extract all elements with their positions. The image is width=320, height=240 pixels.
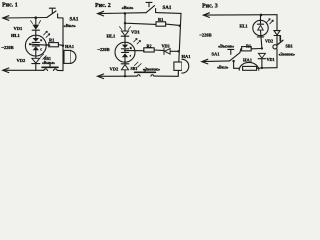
node VD3 rail junction circuit2 bbox=[177, 50, 179, 52]
cathode bar below HL1 circuit3 bbox=[257, 36, 263, 38]
pushbutton SB1 contact circuit3 bbox=[273, 45, 277, 49]
svg-text:HL1: HL1 bbox=[107, 34, 117, 39]
switch SA1 actuator bbox=[49, 8, 55, 12]
node junction top circuit1 bbox=[35, 16, 38, 19]
node junction top circuit2 bbox=[124, 12, 127, 15]
svg-text:НА1: НА1 bbox=[182, 54, 192, 59]
svg-text:HL1: HL1 bbox=[240, 23, 248, 28]
wire HL1 tap to R2 circuit2 bbox=[125, 50, 144, 52]
svg-text:HL1: HL1 bbox=[11, 33, 21, 38]
svg-text:R2: R2 bbox=[147, 43, 152, 48]
arrowhead mains row1 circuit3 bbox=[202, 59, 208, 64]
wire bottom rail right circuit2 bbox=[154, 73, 178, 76]
node bell VD1 junction circuit3 bbox=[261, 67, 263, 69]
pushbutton SB1 stem bbox=[49, 64, 51, 67]
arrowhead mains bottom circuit2 bbox=[98, 74, 104, 79]
lamp HL1 mid node circuit2 bbox=[124, 50, 126, 52]
diode VD2 circuit2 bbox=[121, 63, 129, 65]
pushbutton SB1 lever circuit3 bbox=[277, 40, 283, 45]
wire branch to R1 circuit2 bbox=[125, 23, 156, 24]
svg-text:VD2: VD2 bbox=[265, 39, 273, 44]
svg-text:VD1: VD1 bbox=[267, 57, 275, 62]
switch SA1 right contact bbox=[57, 14, 59, 17]
lamp HL1 circle bbox=[25, 35, 46, 56]
arrowhead mains top circuit1 bbox=[3, 16, 9, 21]
lamp HL1 light arrows circuit3 bbox=[267, 19, 270, 23]
lamp HL1 mid tap node bbox=[29, 43, 31, 45]
wire right rail middle circuit3 bbox=[276, 36, 278, 45]
wire HL1 tap to R1 bbox=[30, 44, 50, 45]
bell HA1 dome circuit3 bbox=[239, 62, 259, 70]
wire top rail circuit3 bbox=[204, 14, 277, 16]
svg-text:~220В: ~220В bbox=[2, 45, 14, 50]
resistor R2 circuit2 bbox=[144, 48, 154, 52]
wire bottom rail circuit1 bbox=[3, 69, 44, 71]
svg-text:«Вызов»: «Вызов» bbox=[218, 43, 234, 48]
lamp HL1 inner diode circuit3 bbox=[257, 15, 263, 24]
wire R1 to mid junction circuit3 bbox=[251, 48, 262, 50]
svg-text:«Выкл»: «Выкл» bbox=[42, 61, 55, 65]
svg-text:~220В: ~220В bbox=[200, 33, 212, 38]
lamp HL1 inner diode lower circuit2 bbox=[121, 51, 128, 53]
svg-text:к: к bbox=[40, 38, 42, 42]
arrowhead mains bottom circuit1 bbox=[3, 68, 9, 73]
svg-text:VD2: VD2 bbox=[110, 67, 119, 72]
wire top rail circuit2 bbox=[98, 12, 146, 15]
svg-text:«Вкл»: «Вкл» bbox=[217, 64, 228, 69]
svg-text:R1: R1 bbox=[246, 43, 251, 48]
lamp HL1 circle circuit2 bbox=[115, 42, 135, 62]
wire HL1 bottom stub circuit2 bbox=[124, 57, 126, 63]
arrowhead mains top circuit3 bbox=[203, 13, 209, 18]
wire VD1 branch circuit2 bbox=[124, 13, 126, 30]
node R1 to rail junction bbox=[62, 45, 64, 47]
svg-text:«Вкл»: «Вкл» bbox=[64, 23, 76, 28]
svg-text:«Вкл»: «Вкл» bbox=[122, 5, 134, 10]
switch SA1 actuator circuit2 bbox=[146, 2, 152, 6]
bell HA1 base circuit3 bbox=[243, 66, 257, 70]
wire blade to R1 circuit3 bbox=[240, 49, 242, 53]
wire row1 from mains circuit3 bbox=[202, 60, 229, 63]
pushbutton SB1 contact bumps bbox=[44, 69, 58, 71]
diode VD1 marks bbox=[31, 20, 41, 23]
svg-text:SB1: SB1 bbox=[131, 66, 138, 71]
switch SA1 actuator circuit3 bbox=[228, 49, 234, 54]
svg-text:SA1: SA1 bbox=[70, 18, 79, 23]
diode VD2 marks circuit2 bbox=[134, 62, 141, 67]
wire from SA1 down right side circuit1 bbox=[58, 18, 63, 71]
svg-text:VD2: VD2 bbox=[17, 58, 26, 63]
node junction top circuit3 bbox=[260, 14, 263, 17]
wire top rail circuit1 bbox=[3, 17, 46, 20]
svg-text:«Звонок»: «Звонок» bbox=[143, 67, 160, 72]
diode VD1 circuit3 bbox=[258, 53, 265, 58]
wire to R1 bbox=[46, 44, 49, 46]
node VD2 rail junction circuit2 bbox=[124, 75, 126, 77]
wire R2 to VD3 circuit2 bbox=[154, 49, 164, 52]
svg-text:SA1: SA1 bbox=[212, 51, 221, 56]
svg-text:SA1: SA1 bbox=[163, 6, 172, 11]
pushbutton SB1 bar circuit2 bbox=[135, 71, 156, 73]
diode VD1 circuit2 bbox=[121, 31, 128, 36]
wire bottom rail circuit2 bbox=[98, 75, 137, 77]
node bell row junction circuit3 bbox=[232, 60, 234, 62]
pushbutton SB1 contact bumps circuit2 bbox=[137, 75, 154, 76]
wire R1 to rail circuit2 bbox=[166, 24, 180, 25]
resistor R1 circuit2 bbox=[156, 22, 166, 26]
lamp HL1 inner diode upper bbox=[33, 38, 39, 42]
wire R1 to rail circuit1 bbox=[58, 44, 63, 47]
lamp HL1 inner diode lower bbox=[32, 45, 39, 47]
node branch junction circuit2 bbox=[124, 22, 126, 24]
svg-text:Рис. 2: Рис. 2 bbox=[95, 3, 111, 9]
switch SA1 blade circuit3 bbox=[230, 53, 240, 61]
lamp HL1 light arrows bbox=[44, 31, 48, 35]
lamp HL1 inner diode upper circuit2 bbox=[122, 45, 128, 49]
svg-text:VD3: VD3 bbox=[162, 43, 170, 48]
node mid junction circuit3 bbox=[261, 47, 263, 49]
wire right rail lower circuit3 bbox=[276, 49, 278, 68]
svg-text:SB1: SB1 bbox=[286, 44, 293, 49]
svg-text:Рис. 1: Рис. 1 bbox=[2, 3, 18, 9]
switch SA1 right contact circuit2 bbox=[155, 9, 157, 13]
diode VD2 tick circuit3 bbox=[279, 36, 281, 41]
wire right side circuit2 bbox=[156, 13, 181, 74]
svg-text:НА1: НА1 bbox=[65, 44, 75, 49]
svg-text:R1: R1 bbox=[49, 37, 54, 42]
diode VD3 circuit2 bbox=[163, 48, 165, 54]
svg-text:«Звонок»: «Звонок» bbox=[279, 53, 295, 57]
svg-text:~220В: ~220В bbox=[98, 47, 110, 52]
svg-text:Рис. 3: Рис. 3 bbox=[202, 4, 218, 10]
wire HL1 bottom stub bbox=[35, 51, 37, 59]
pushbutton SB1 bar bbox=[42, 66, 58, 68]
resistor R1 circuit3 bbox=[242, 47, 252, 51]
wire VD3 to rail circuit2 bbox=[170, 50, 178, 52]
wire down to bell circuit3 bbox=[234, 61, 243, 68]
buzzer HA1 body bbox=[64, 50, 71, 63]
svg-text:R1: R1 bbox=[158, 17, 163, 22]
wire below HL1 circuit3 bbox=[261, 30, 262, 48]
arrowhead mains top circuit2 bbox=[98, 11, 104, 16]
lamp HL1 light arrows circuit2 bbox=[134, 39, 137, 43]
diode VD1 bbox=[32, 25, 39, 30]
svg-text:НА1: НА1 bbox=[243, 57, 253, 62]
diode VD2 marks bbox=[40, 54, 46, 59]
wire VD1 branch bbox=[35, 18, 37, 25]
wire bottom rail right circuit1 bbox=[57, 69, 63, 71]
buzzer HA1 dome bbox=[71, 51, 76, 64]
pushbutton SB1 stem circuit2 bbox=[144, 70, 146, 73]
diode VD1 marks circuit2 bbox=[119, 27, 130, 30]
lamp HL1 circle circuit3 bbox=[253, 20, 268, 35]
diode VD2 circuit3 bbox=[274, 31, 280, 35]
wire bell to right rail circuit3 bbox=[257, 67, 277, 70]
switch SA1 blade circuit2 bbox=[146, 6, 155, 13]
svg-text:VD1: VD1 bbox=[14, 26, 23, 31]
switch SA1 blade bbox=[47, 11, 56, 18]
buzzer HA1 dome circuit2 bbox=[182, 59, 189, 73]
resistor R1 bbox=[49, 43, 59, 47]
buzzer HA1 body circuit2 bbox=[174, 62, 182, 70]
svg-text:VD1: VD1 bbox=[131, 30, 140, 35]
diode VD2 bbox=[32, 58, 40, 63]
wire right rail upper circuit3 bbox=[276, 15, 278, 31]
node R1 rail junction circuit2 bbox=[179, 25, 181, 27]
